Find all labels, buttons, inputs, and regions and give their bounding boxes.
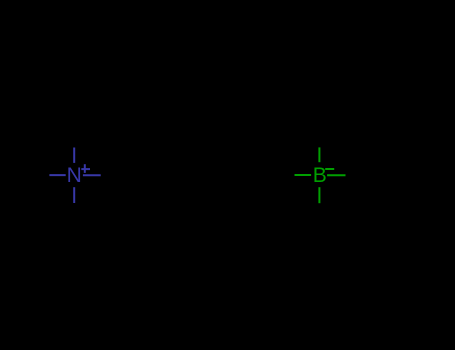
bond B-C left: [295, 174, 312, 176]
bond B-C right: [327, 174, 345, 176]
bond N-CH3 down: [73, 187, 75, 203]
charge minus: [325, 168, 334, 170]
bond B-C down: [318, 187, 320, 203]
bond N-CH3 up: [73, 148, 75, 163]
svg-text:B: B: [313, 164, 327, 187]
svg-text:N: N: [67, 164, 82, 187]
bond B-C up: [318, 147, 320, 162]
tetramethylammonium cation: [49, 148, 100, 204]
charge plus: [81, 164, 90, 173]
borate anion: [295, 147, 346, 203]
bond N-CH3 left: [49, 174, 65, 176]
bond N-CH3 right: [83, 174, 101, 176]
